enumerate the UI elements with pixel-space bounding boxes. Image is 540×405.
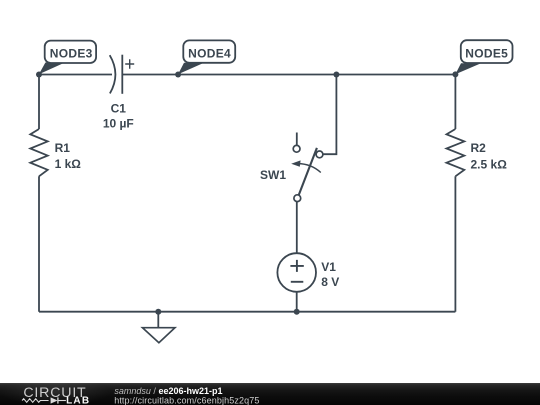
- wire bottom bus: [39, 311, 455, 313]
- switch SW1 throw contact circle (left): [293, 145, 300, 152]
- svg-text:SW1: SW1: [260, 168, 286, 182]
- wire right vertical lower (R2 to bottom bus): [454, 176, 456, 311]
- wire SW1 to V1: [296, 202, 298, 254]
- node NODE4 flag pointer: [178, 63, 204, 75]
- svg-text:V1: V1: [321, 260, 336, 274]
- wire top bus right segment (C1 to NODE5 corner): [122, 74, 455, 76]
- junction dot V1 bottom: [294, 309, 300, 315]
- voltage source V1 plus sign: [290, 260, 303, 272]
- footer logo glow: [0, 383, 115, 405]
- svg-text:R1: R1: [55, 141, 71, 155]
- junction dot switch branch: [333, 72, 339, 78]
- svg-text:1 kΩ: 1 kΩ: [55, 157, 82, 171]
- wire SW1 open throw stub: [296, 133, 298, 146]
- node NODE3 flag pointer: [39, 63, 65, 75]
- wire left vertical upper (NODE3 to R1): [38, 75, 40, 130]
- switch SW1 arm: [299, 148, 317, 195]
- capacitor C1 curved plate: [110, 55, 116, 93]
- ground symbol triangle: [143, 328, 175, 343]
- wire right vertical upper (NODE5 to R2): [454, 75, 456, 130]
- junction dot NODE5 anchor: [452, 71, 458, 77]
- junction dot ground: [155, 309, 161, 315]
- capacitor C1 polarity plus sign: [125, 59, 134, 69]
- svg-text:2.5 kΩ: 2.5 kΩ: [471, 158, 508, 172]
- node NODE5 flag pointer: [455, 63, 481, 74]
- voltage source V1 circle: [277, 253, 316, 292]
- svg-text:NODE5: NODE5: [465, 47, 508, 61]
- svg-text:8 V: 8 V: [321, 275, 339, 289]
- capacitor C1 straight plate: [121, 55, 123, 94]
- wire V1 to bottom bus: [296, 292, 298, 312]
- switch SW1 arrow head: [291, 160, 300, 166]
- svg-text:C1: C1: [111, 102, 127, 116]
- voltage source V1 minus sign: [291, 281, 304, 283]
- node NODE3 flag box: [45, 41, 96, 63]
- switch SW1 action arrow arc: [296, 164, 321, 173]
- switch SW1 contact circle (right): [316, 151, 323, 158]
- junction dot NODE3 anchor: [36, 72, 42, 78]
- CircuitLab logo trace: diode: [51, 397, 58, 403]
- svg-text:10 µF: 10 µF: [103, 116, 134, 130]
- resistor R1: [30, 129, 47, 176]
- wire top bus left segment (NODE3 to C1): [39, 74, 112, 76]
- wire switch branch (top bus junction down and left to SW1 contact): [324, 75, 337, 155]
- resistor R2: [447, 129, 465, 176]
- wire left vertical lower (R1 to bottom bus): [38, 176, 40, 311]
- node NODE5 flag box: [461, 40, 513, 63]
- svg-text:NODE3: NODE3: [50, 47, 93, 61]
- svg-text:NODE4: NODE4: [188, 47, 231, 61]
- footer bar: [0, 383, 540, 405]
- node NODE4 flag box: [183, 40, 235, 62]
- ground stub wire: [157, 312, 159, 328]
- junction dot NODE4 anchor: [175, 72, 181, 78]
- switch SW1 pole circle (bottom): [294, 195, 301, 202]
- CircuitLab logo trace: resistor zigzag: [22, 399, 48, 403]
- svg-text:R2: R2: [471, 141, 487, 155]
